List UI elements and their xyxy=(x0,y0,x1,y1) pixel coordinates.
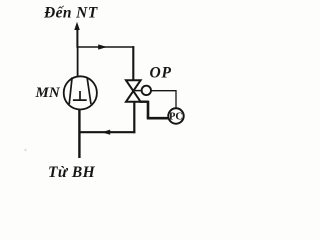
compressor U1 MN circle xyxy=(64,76,97,109)
valve V1 top triangle xyxy=(126,80,141,91)
wire: pipe from compressor top to junction xyxy=(77,46,79,77)
wire: bypass return vertical below valve xyxy=(133,101,135,133)
valve stem to pilot xyxy=(133,90,142,92)
pilot actuator circle OP xyxy=(142,86,151,95)
wire: sense line vertical xyxy=(147,101,150,118)
svg-text:Đến NT: Đến NT xyxy=(43,5,98,22)
wire: sense line horizontal into PC xyxy=(147,117,169,120)
svg-text:MN: MN xyxy=(35,85,61,101)
valve V1 bottom triangle xyxy=(126,91,141,102)
wire: bypass branch vertical down to valve xyxy=(132,46,134,80)
wire: discharge pipe vertical (junction to arrow) xyxy=(76,29,78,48)
wire: suction pipe below compressor xyxy=(78,109,80,158)
compressor left chord xyxy=(69,77,72,104)
svg-text:OP: OP xyxy=(150,65,172,82)
faint paper speck xyxy=(24,149,26,151)
pressure controller PC circle xyxy=(168,108,183,123)
arrow left on bypass return xyxy=(102,130,111,135)
compressor inner tee symbol xyxy=(73,91,87,100)
svg-text:Từ BH: Từ BH xyxy=(48,164,96,181)
svg-text:PC: PC xyxy=(169,111,183,122)
wire: valve outlet extension to sense line xyxy=(140,100,149,102)
wire: pilot signal line to PC top xyxy=(151,91,176,109)
compressor right chord xyxy=(87,77,91,104)
arrow right on bypass branch xyxy=(98,44,107,49)
wire: discharge pipe up-arrow xyxy=(74,22,80,30)
wire: bypass return horizontal to suction xyxy=(79,131,136,133)
wire: top bypass branch horizontal xyxy=(77,46,134,48)
